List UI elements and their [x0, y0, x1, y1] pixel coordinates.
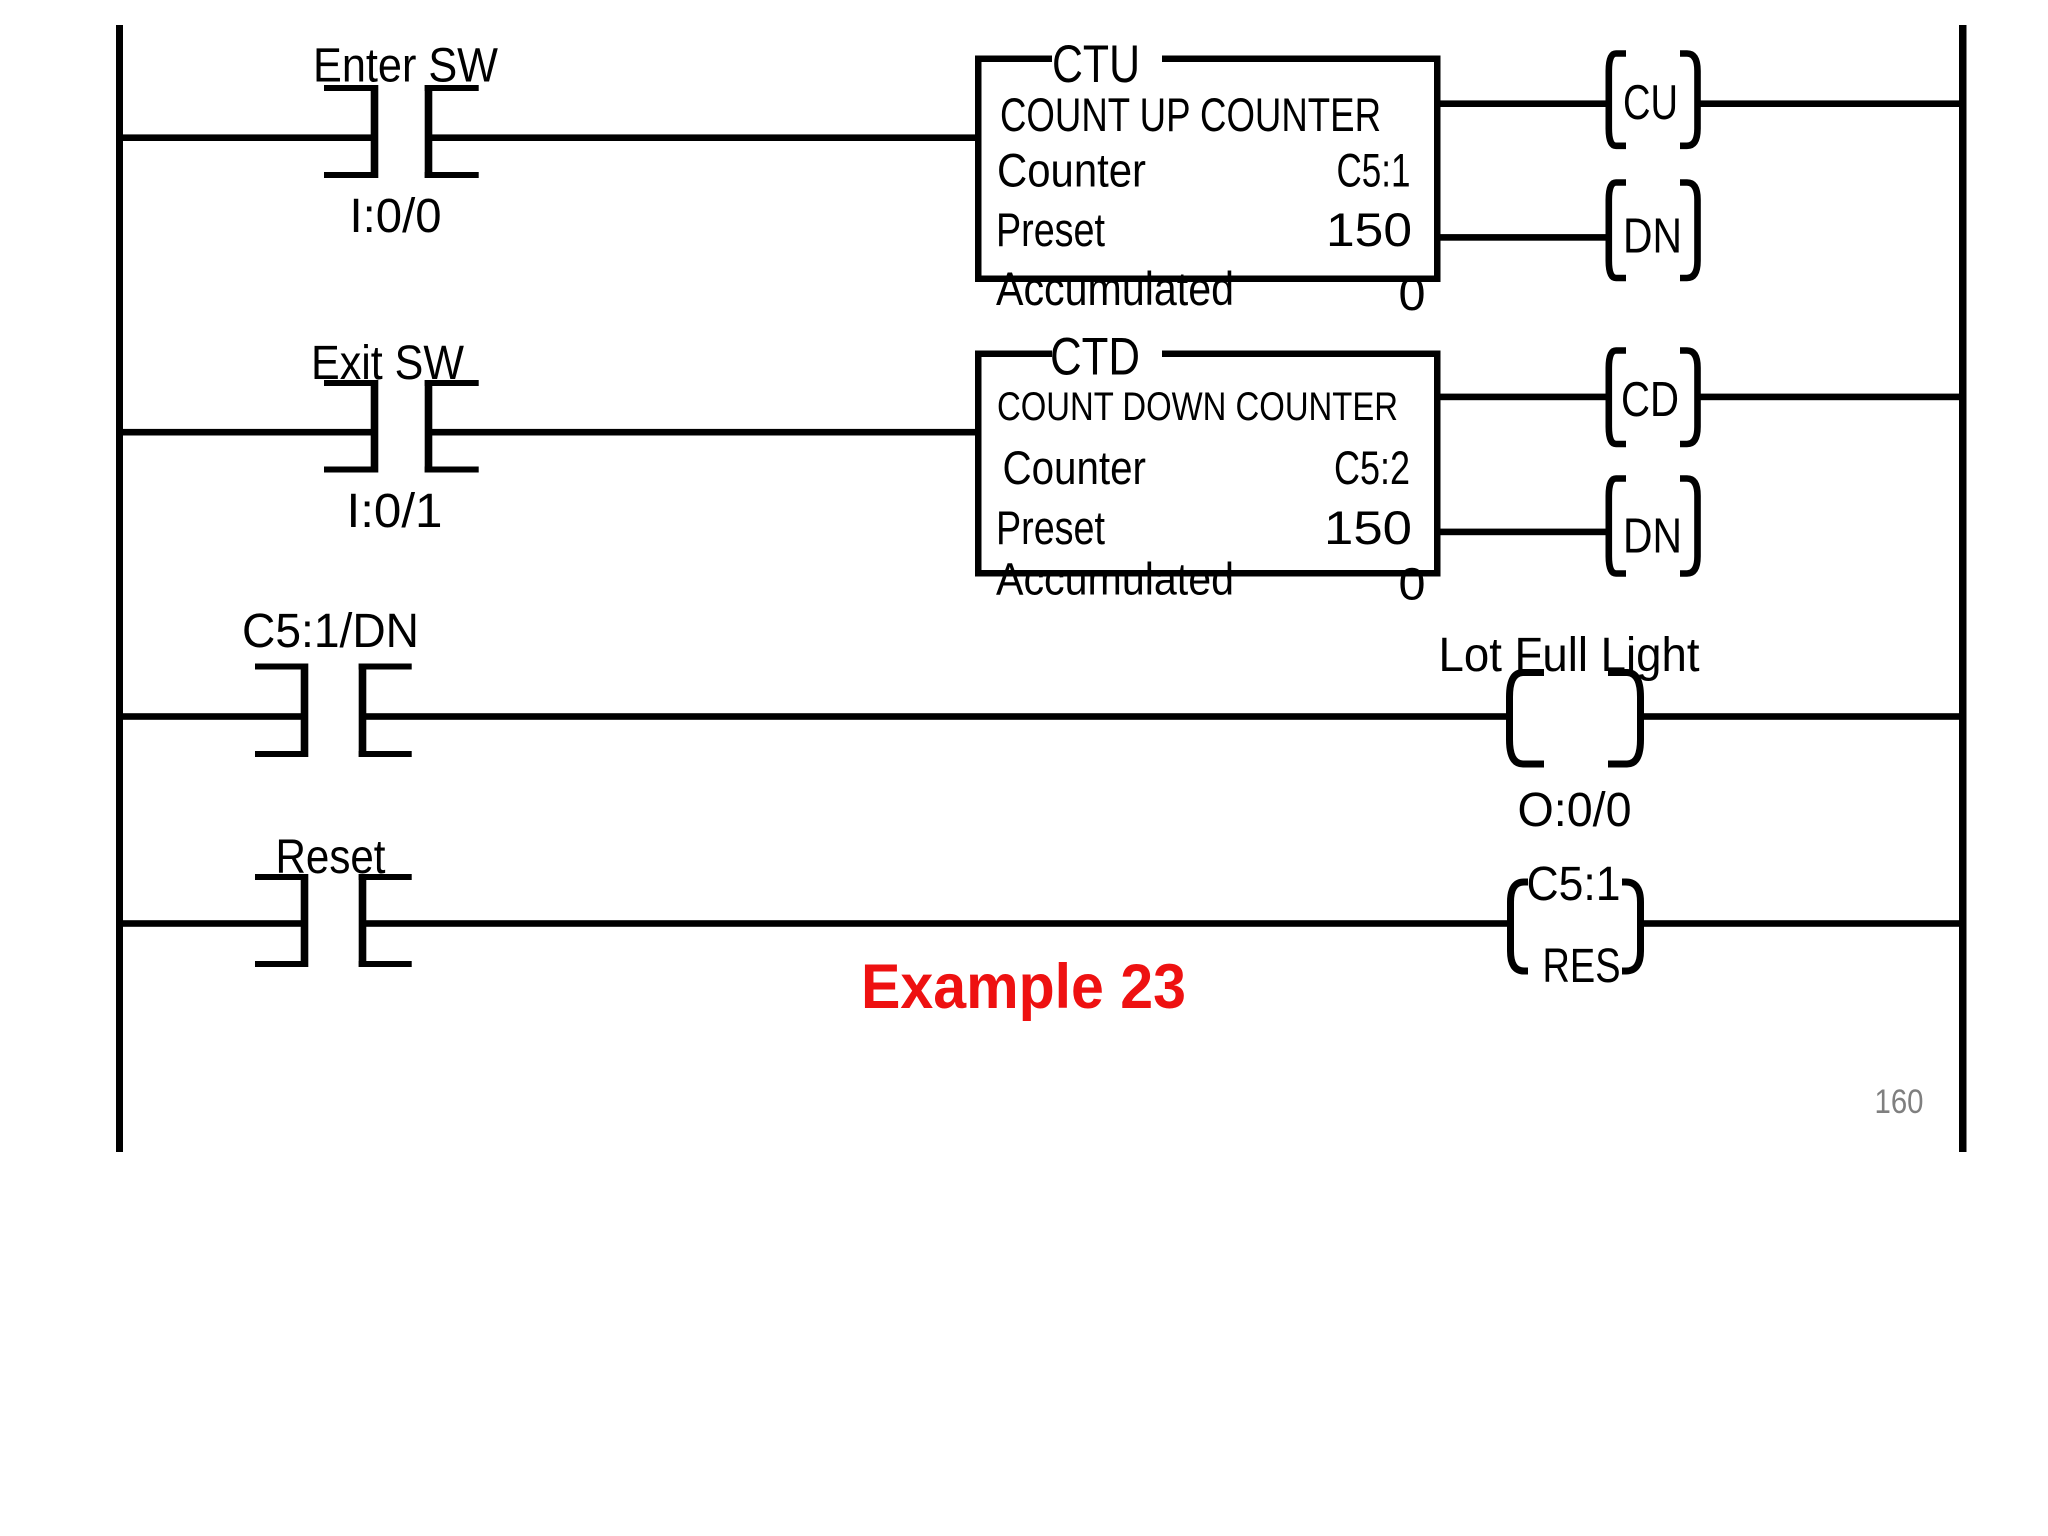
svg-text:150: 150 [1324, 501, 1412, 554]
label Preset 150 rung2 [996, 501, 1412, 554]
svg-text:Counter: Counter [1003, 441, 1147, 494]
label DN rung1 [1623, 210, 1682, 264]
svg-text:C5:1: C5:1 [1527, 858, 1621, 911]
svg-text:0: 0 [1399, 559, 1426, 610]
svg-text:Exit SW: Exit SW [311, 337, 465, 390]
label Reset [276, 831, 386, 884]
wire rung2 left segment [120, 429, 373, 436]
svg-text:O:0/0: O:0/0 [1518, 784, 1632, 837]
contact C5:1/DN [255, 664, 412, 758]
svg-text:Counter: Counter [997, 144, 1146, 197]
label I:0/0 [350, 190, 442, 243]
wire Lot Full Light coil to right rail [1638, 713, 1962, 720]
svg-text:COUNT DOWN COUNTER: COUNT DOWN COUNTER [997, 385, 1398, 429]
label Enter SW [313, 40, 499, 93]
svg-text:C5:1: C5:1 [1337, 144, 1411, 197]
counter box CTU [975, 56, 1441, 282]
svg-text:DN: DN [1623, 510, 1682, 564]
coil CD [1609, 351, 1698, 445]
svg-text:Lot Full Light: Lot Full Light [1439, 629, 1700, 682]
label CTD [1050, 328, 1140, 387]
label O:0/0 [1518, 784, 1632, 837]
wire rung2 contact to CTD box [427, 429, 977, 436]
reset RES C5:1 [1511, 882, 1641, 971]
svg-text:160: 160 [1875, 1083, 1924, 1121]
svg-text:Reset: Reset [276, 831, 386, 884]
wire rung1 contact to CTU box [427, 134, 977, 141]
wire rung4 contact to RES [365, 920, 1513, 927]
wire rung3 contact to Lot Full Light coil [365, 713, 1512, 720]
label COUNT UP COUNTER [1000, 88, 1381, 141]
coil DN rung1 [1609, 183, 1698, 279]
label Counter C5:1 [997, 144, 1411, 197]
svg-text:Accumulated: Accumulated [996, 262, 1234, 315]
svg-text:I:0/0: I:0/0 [350, 190, 442, 243]
wire CTU box to DN coil [1438, 234, 1608, 241]
wire CD coil to right rail [1696, 394, 1962, 401]
label Accumulated 0 [996, 262, 1426, 320]
wire rung1 left segment [120, 134, 373, 141]
contact Reset [255, 874, 412, 967]
svg-text:DN: DN [1623, 210, 1682, 264]
wire CTU box to CU coil [1438, 100, 1608, 107]
label DN rung2 [1623, 510, 1682, 564]
svg-text:CTD: CTD [1050, 328, 1140, 387]
svg-text:150: 150 [1326, 203, 1412, 256]
wire CU coil to right rail [1696, 100, 1962, 107]
label C5:1 reset [1527, 858, 1621, 911]
label Lot Full Light [1439, 629, 1700, 682]
wire rung3 left segment [120, 713, 303, 720]
label RES [1543, 940, 1621, 993]
svg-text:CTU: CTU [1052, 35, 1140, 94]
wire CTD box to CD coil [1438, 394, 1608, 401]
svg-text:Example 23: Example 23 [861, 952, 1186, 1022]
svg-text:Preset: Preset [996, 203, 1105, 256]
page number 160 [1875, 1083, 1924, 1121]
label CU [1623, 76, 1678, 130]
label CTU [1052, 35, 1140, 94]
svg-text:Accumulated: Accumulated [996, 554, 1234, 605]
label C5:1/DN [242, 605, 419, 658]
wire CTD box to DN2 coil [1438, 529, 1608, 536]
svg-text:CU: CU [1623, 76, 1678, 130]
counter box CTD [975, 351, 1441, 577]
label Preset 150 [996, 203, 1412, 256]
svg-text:Enter SW: Enter SW [313, 40, 499, 93]
svg-text:COUNT UP COUNTER: COUNT UP COUNTER [1000, 88, 1381, 141]
left power rail [116, 25, 123, 1152]
svg-text:0: 0 [1399, 267, 1426, 320]
label Counter C5:2 [1003, 441, 1411, 494]
label Accumulated 0 rung2 [996, 554, 1426, 610]
svg-text:RES: RES [1543, 940, 1621, 993]
counter box CTD bottom border [975, 570, 1441, 577]
label CD [1621, 373, 1679, 427]
contact Exit SW I:0/1 [324, 380, 479, 473]
wire rung4 left segment [120, 920, 303, 927]
svg-text:CD: CD [1621, 373, 1679, 427]
svg-text:C5:1/DN: C5:1/DN [242, 605, 419, 658]
svg-text:I:0/1: I:0/1 [347, 485, 443, 538]
title Example 23 [861, 952, 1186, 1022]
contact Enter SW I:0/0 [324, 85, 479, 178]
svg-text:Preset: Preset [996, 501, 1105, 554]
counter box CTU bottom border [975, 276, 1441, 283]
wire RES to right rail [1638, 920, 1962, 927]
coil Lot Full Light O:0/0 [1510, 673, 1641, 765]
svg-text:C5:2: C5:2 [1334, 441, 1410, 494]
label I:0/1 [347, 485, 443, 538]
label COUNT DOWN COUNTER [997, 385, 1398, 429]
coil CU [1609, 54, 1698, 146]
label Exit SW [311, 337, 465, 390]
coil DN rung2 [1609, 479, 1698, 574]
right power rail [1959, 25, 1967, 1152]
